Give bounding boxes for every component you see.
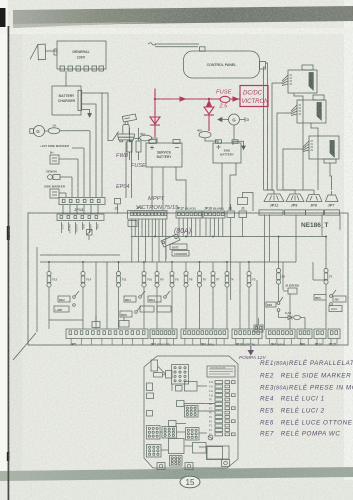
wire charger right 2 [82,104,96,197]
red wire service to dcdc [154,89,156,127]
connector JP10 [232,329,262,339]
connector JP5 [66,329,148,339]
relay socket E [186,428,200,441]
relay socket pins E [187,429,197,438]
relay RE6 [120,306,141,317]
service battery leads down [152,167,186,210]
top-left black corner mark [0,8,6,27]
connector JP3 [181,329,228,339]
mounting tab [185,463,193,470]
fuse F7 [211,263,215,296]
fuse table row 9 [215,415,230,418]
relay socket pins B [186,407,196,416]
comp 1A holder [154,373,163,378]
wire horizontal links lower [49,262,326,329]
fuse F2 [276,237,280,293]
wire charger right 1 [82,93,113,141]
relay socket D [162,427,177,439]
small component near JP13 strip [87,230,93,241]
red branch to engine battery [207,99,211,107]
red annotation overlay [150,86,268,138]
printed small texts top [36,50,249,212]
fuse F4 [225,263,229,296]
generator box GENERAL 230V [54,41,106,71]
connector JP1 [128,211,168,220]
fuse F9 [155,263,159,296]
relay RE4 [124,291,145,302]
comp X3 [176,386,183,392]
connector JP8 [283,190,324,215]
wires fuse row to bottom strips [49,293,326,330]
connector J2 [115,198,121,214]
engine battery [213,140,241,163]
relay RE2 lamp box [54,306,69,312]
alternator G [218,114,245,140]
strip pin stubs below [71,339,337,345]
wire JP9 base down [295,215,297,263]
pin labels JP13 strip [61,224,98,234]
wire tank1 drain [294,93,303,128]
dc/dc victron red box [240,86,268,107]
comp edge1 [147,383,153,391]
wire board bottom-left diagonal [13,333,36,360]
relay socket B [185,406,199,418]
connector JP9 [277,190,306,215]
handwritten relay list [260,358,353,438]
wires JP1 to bus [132,219,166,262]
wire JP8 base down [321,215,323,237]
fuse table row 8 [215,411,230,414]
bus wire left mid [40,254,120,256]
control panel box [184,51,260,78]
connector mini JP16 [254,318,263,332]
fuse table row 6 [215,402,230,405]
fuse table row 3 [215,389,230,392]
connector JP15 [328,329,340,339]
fuse table row 12 [215,428,230,431]
connector JP18 [203,211,225,218]
control panel right stub [260,62,268,191]
bus wire lower [40,261,296,263]
connector labels right [270,204,335,208]
wire tank2 drain [311,123,318,190]
connector JP4 [266,329,295,339]
bottom scan shadow band [0,467,353,481]
fuse table row 13 [215,433,235,436]
arrow pompa [248,346,253,355]
fuse F1 [324,237,328,293]
B+ box [50,155,78,164]
tank unit 2 [277,95,326,190]
side marker feed wire [72,147,84,149]
connector JP14 [314,329,326,339]
dark handwritten annotations mid [116,153,191,235]
connector J4 [283,288,297,294]
connector JP2 [150,329,177,339]
connector JP13 [59,198,105,205]
comp big empty [169,439,185,454]
battery charger box [52,86,81,115]
red fuse ellipse [220,96,230,102]
diode 1L5A [279,312,306,330]
antenna flag symbol [30,44,57,60]
fusebox pump logo [208,435,213,440]
inline fuse holders left of battery [127,128,141,160]
red diode D2 [204,107,214,131]
relay socket pins F [149,446,159,455]
fuse table header [207,366,235,377]
fuse table row 7 [215,407,235,410]
wire charger arrow [78,90,91,117]
red diode D1 [150,117,160,137]
connector J3 [227,204,235,218]
wire left board vertical [36,247,38,332]
fuse table row 11 [215,424,230,427]
control panel feed cable [148,43,205,51]
fuse F5 [197,263,201,296]
left bus verticals to JP13 [66,93,102,197]
comp X2 [166,371,173,379]
fusebox inner bottom box [207,446,229,459]
comp right2 [207,447,223,460]
fuse F11 [116,263,120,296]
relay socket A [172,365,189,385]
tiny labels top strips [115,206,245,256]
mounting tab [157,463,165,470]
service battery 40A fuse [140,135,157,143]
left scan edge line [8,26,10,500]
fuse F6 [184,263,188,296]
relay socket pins A [174,367,186,382]
comp mid2 [177,401,185,407]
fuse table row 1 [215,381,235,384]
tank unit 1 [272,65,317,190]
relay socket C [147,426,161,440]
wire JP7 base down [339,215,341,231]
relay aux boxes [140,306,171,312]
relay RE3 [148,291,170,302]
relay RE7 tilted [161,234,189,259]
fuse 1A [48,128,90,134]
connector JP17 [176,211,202,218]
top scan shadow band [13,6,353,27]
service battery [146,140,182,168]
comp K1 [151,360,158,371]
relay socket pins G [171,457,180,465]
fuse table row 2 [215,385,230,388]
bus wire upper [131,236,326,238]
wires JP18 to bus [206,218,223,237]
wire general to charger [65,71,67,86]
comp mid3 [169,421,177,427]
mounting tab [222,460,230,467]
main pcb board NE186_T [28,213,348,345]
wire J3 down [230,218,232,263]
tank unit 3 [283,136,339,190]
connector J1 [238,193,254,218]
fuse F12 [47,263,51,296]
xenon lamp [48,175,72,180]
relay socket pins D [164,428,174,437]
engine battery 40A fuse [199,132,218,144]
comp edge3 [147,411,153,417]
comp right1 [193,443,207,454]
side marker box [50,189,66,198]
connector JP11 [259,190,284,215]
relay socket pins C [148,427,158,437]
wires JP13 to board [63,205,98,214]
connector JP7 [325,191,340,215]
fusebox wiring stubs [158,366,216,450]
board strip under JP13 [57,214,104,234]
relay RE2 [58,291,79,306]
fuse F10 [142,263,146,296]
engine battery leads down [222,141,245,210]
fuse F3 [247,263,251,296]
connector JP6 [297,329,312,339]
page number oval 15 [180,476,200,488]
windlass motor symbol [113,114,140,198]
fuse table row 4 [215,394,235,397]
wire J1 down [242,218,244,237]
comp mid1 [185,382,198,392]
red handwritten labels [216,90,269,110]
fuse F14 [81,263,85,296]
left generator small G [30,126,49,137]
relay RE6b [266,297,283,311]
wire JP11 base down [265,215,270,331]
wires JP17 to bus [179,218,200,237]
aux boxes above JP5 [92,315,129,328]
fuse F8 [170,263,174,296]
comp edge2 [147,393,154,399]
relay socket G [170,456,183,467]
component under JP1 [128,221,137,227]
fuse table row 10 [215,420,235,423]
fuse table row 5 [215,398,230,401]
fusebox outline [144,356,238,468]
relay RE5 [314,290,346,312]
relay socket F [147,445,162,458]
